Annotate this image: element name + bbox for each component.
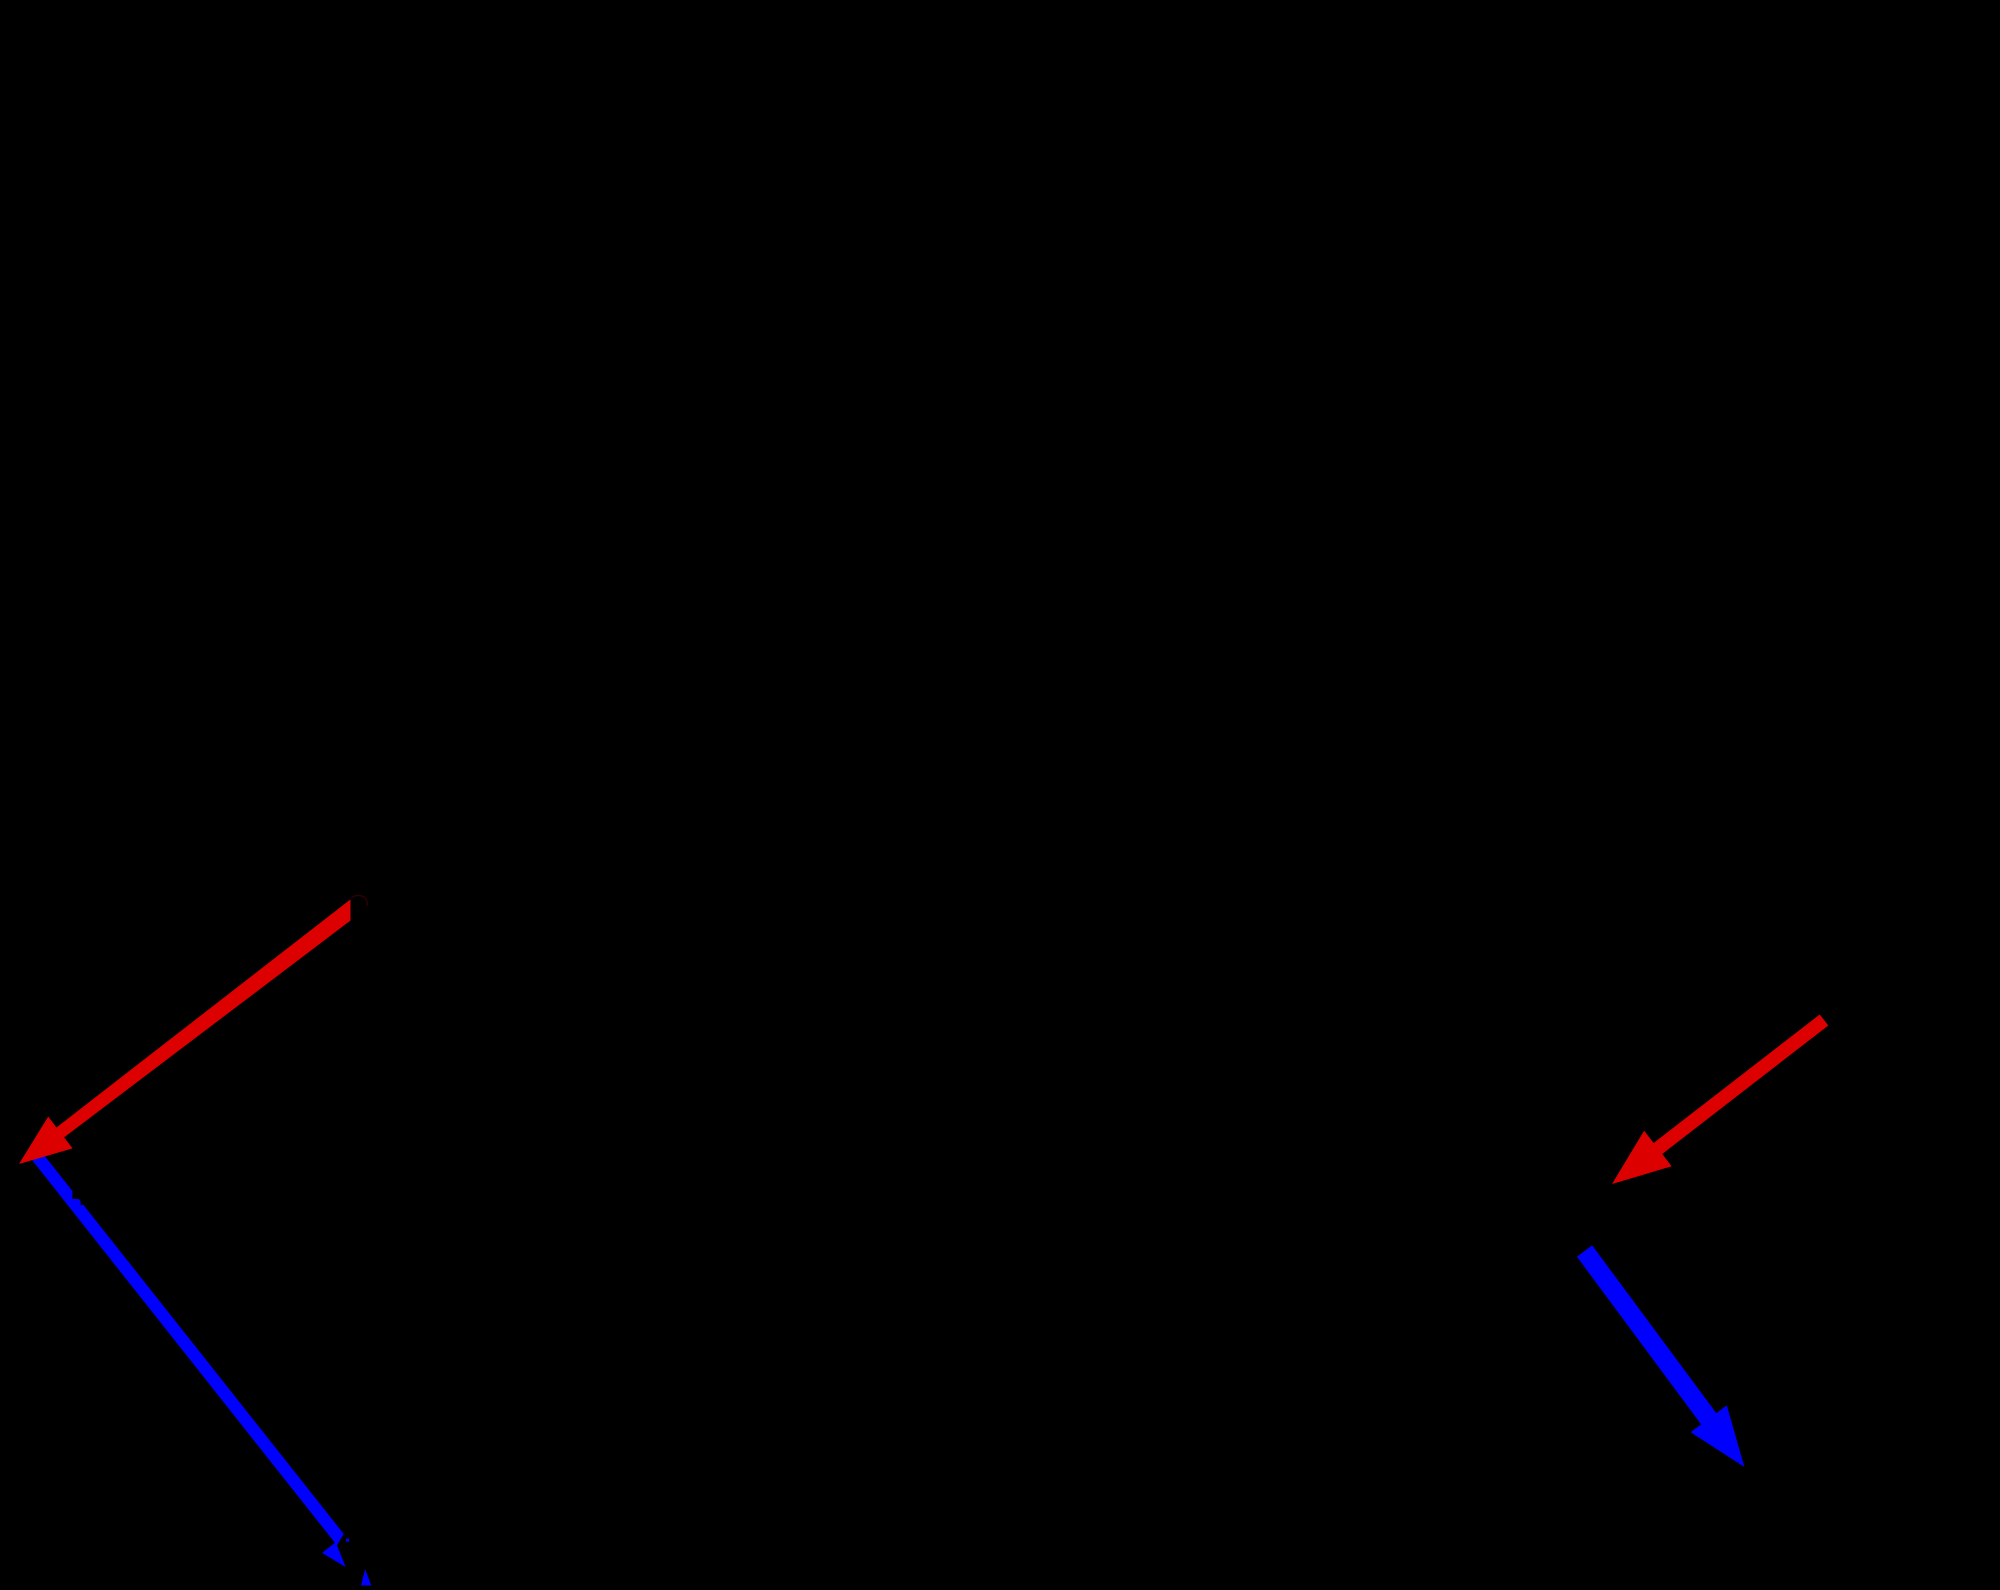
blue force arrow B1 (left, pointing down-right) [31,1151,377,1586]
black overlay hexagon over blue arrow B1 head [337,1517,398,1590]
red force arrow R1 (left, pointing down-left) [19,899,351,1164]
black notch 2 over blue arrow B1 shaft [81,1199,87,1205]
small blue dot remnant of B1 right barb [346,1539,349,1542]
black notch 1 over blue arrow B1 shaft [72,1190,82,1199]
blue force arrow B2 (right, pointing down-right) [1577,1245,1745,1467]
red force arrow R2 (right, pointing down-left) [1612,1015,1828,1185]
faint dark circle arc at red arrow R1 tail [351,895,367,905]
blue tip fragment of arrow B1 head [361,1569,371,1585]
